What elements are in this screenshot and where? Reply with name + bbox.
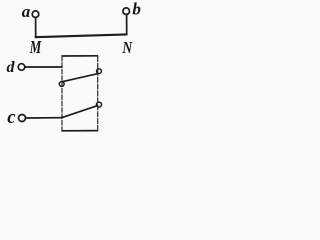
terminal a: [32, 11, 39, 18]
node on right edge (lower): [97, 102, 102, 107]
terminal c: [19, 115, 26, 122]
svg-text:M: M: [29, 38, 42, 58]
node on right edge (upper): [97, 69, 102, 74]
svg-text:d: d: [7, 59, 16, 76]
wire d to box: [25, 66, 62, 68]
svg-text:N: N: [122, 39, 133, 58]
svg-text:a: a: [22, 2, 31, 21]
terminal d: [18, 64, 25, 71]
black box top edge: [61, 55, 98, 57]
wire b to N: [126, 15, 128, 36]
internal wire upper diagonal: [62, 74, 97, 82]
black box right edge: [97, 56, 99, 131]
black box left edge: [61, 56, 63, 131]
wire c to box: [26, 117, 63, 119]
svg-text:c: c: [7, 108, 15, 128]
node on left edge: [59, 82, 64, 87]
svg-text:b: b: [132, 0, 141, 19]
wire M to N: [35, 34, 127, 37]
wire a to M: [35, 18, 37, 38]
terminal b: [123, 8, 130, 15]
black box bottom edge: [61, 130, 98, 132]
internal wire lower diagonal: [62, 106, 98, 118]
